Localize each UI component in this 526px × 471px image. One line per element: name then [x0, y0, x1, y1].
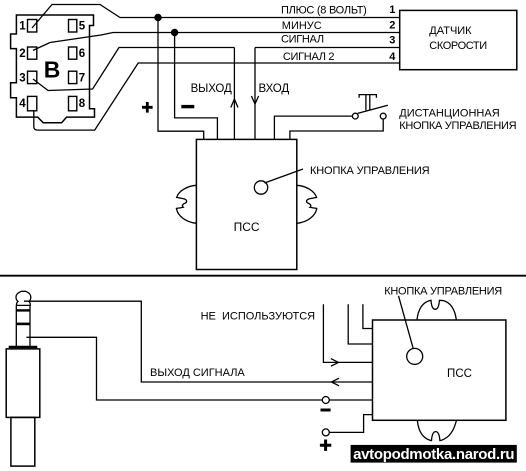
separator line — [0, 275, 526, 277]
plus symbol top — [142, 102, 153, 113]
lower PSS button pointer line — [399, 296, 414, 349]
svg-text:2: 2 — [389, 19, 395, 31]
pin 4 — [28, 96, 37, 110]
svg-text:5: 5 — [79, 21, 86, 33]
jack band 2 — [16, 323, 30, 326]
unused wire 1 with right arrow — [323, 304, 372, 362]
jack band 1 — [16, 309, 30, 311]
svg-text:ВЫХОД СИГНАЛА: ВЫХОД СИГНАЛА — [150, 367, 245, 379]
svg-text:ВХОД: ВХОД — [259, 83, 290, 95]
svg-text:СКОРОСТИ: СКОРОСТИ — [429, 40, 486, 52]
wire PSS to switch left — [274, 116, 352, 139]
svg-text:6: 6 — [79, 48, 85, 60]
svg-text:avtopodmotka.narod.ru: avtopodmotka.narod.ru — [353, 446, 514, 463]
wire PSS to switch right — [290, 119, 383, 139]
arrow down on VHOD — [251, 96, 258, 104]
svg-text:КНОПКА УПРАВЛЕНИЯ: КНОПКА УПРАВЛЕНИЯ — [399, 120, 516, 132]
svg-text:СИГНАЛ: СИГНАЛ — [281, 34, 324, 46]
wire VYHOD vertical — [233, 48, 235, 140]
arrow right on unused wire 1 — [331, 359, 339, 367]
wire SIGNAL continuation to sensor pin3 — [255, 47, 400, 49]
wire plus branch down to PSS — [158, 18, 204, 140]
svg-text:МИНУС: МИНУС — [282, 20, 322, 32]
lower PSS bottom ear — [417, 421, 456, 441]
wire from jack tip (signal output) — [24, 301, 373, 382]
svg-text:7: 7 — [79, 73, 85, 85]
unused wire 3 — [363, 304, 373, 328]
jack sleeve — [11, 417, 35, 466]
sensor box — [400, 10, 517, 69]
pin 1 — [28, 20, 37, 33]
svg-text:ВЫХОД: ВЫХОД — [191, 83, 232, 95]
switch plunger — [359, 95, 376, 111]
plus symbol bottom — [320, 440, 331, 451]
pin 6 — [69, 47, 77, 59]
svg-text:1: 1 — [19, 21, 26, 33]
svg-text:1: 1 — [389, 4, 395, 16]
jack shaft — [16, 305, 30, 347]
junction dot on PLUS wire — [155, 14, 161, 20]
pin 8 — [69, 96, 77, 110]
watermark banner — [351, 445, 517, 463]
svg-text:4: 4 — [19, 98, 26, 110]
arrow up on VYHOD — [231, 99, 238, 108]
lower PSS top ear — [417, 300, 456, 319]
svg-text:3: 3 — [389, 34, 395, 46]
svg-text:СИГНАЛ 2: СИГНАЛ 2 — [283, 51, 335, 63]
pin 2 — [28, 47, 37, 59]
wire SIGNAL (pin3 down-then-up to PSS output branch) — [33, 48, 234, 91]
upper PSS box — [196, 139, 296, 269]
wire PLUS (pin1 to sensor pin1) — [32, 5, 400, 29]
upper PSS button pointer line — [265, 169, 304, 183]
switch lever — [358, 105, 388, 113]
lower PSS box — [373, 320, 506, 420]
pin 5 — [69, 20, 77, 33]
unused wire 2 — [348, 304, 372, 344]
wire minus branch down to PSS — [175, 33, 218, 140]
svg-text:В: В — [44, 56, 61, 82]
minus symbol top — [181, 105, 194, 108]
pin 3 — [28, 71, 37, 83]
wire SIGNAL2 (pin4 to sensor pin4) — [34, 63, 400, 130]
minus terminal circle — [322, 397, 329, 404]
minus symbol bottom — [321, 409, 331, 412]
svg-text:ДАТЧИК: ДАТЧИК — [429, 25, 472, 37]
connector B outline — [11, 15, 95, 123]
svg-text:НЕ ИСПОЛЬЗУЮТСЯ: НЕ ИСПОЛЬЗУЮТСЯ — [201, 310, 316, 322]
svg-text:КНОПКА УПРАВЛЕНИЯ: КНОПКА УПРАВЛЕНИЯ — [384, 285, 502, 297]
wire VHOD vertical — [254, 48, 256, 140]
svg-text:ПСС: ПСС — [234, 220, 260, 234]
svg-text:2: 2 — [19, 48, 25, 60]
arrow left on signal wire — [332, 378, 340, 386]
upper PSS right ear — [297, 185, 317, 223]
svg-text:ДИСТАНЦИОННАЯ: ДИСТАНЦИОННАЯ — [399, 108, 499, 120]
svg-text:КНОПКА УПРАВЛЕНИЯ: КНОПКА УПРАВЛЕНИЯ — [310, 165, 430, 177]
switch terminal left — [352, 113, 358, 119]
plus terminal circle — [322, 429, 329, 436]
jack barrel — [6, 349, 40, 418]
svg-text:4: 4 — [389, 51, 396, 63]
switch terminal right — [380, 113, 386, 119]
wire from jack ring to minus terminal — [26, 337, 322, 400]
upper PSS left ear — [176, 185, 196, 223]
wire minus terminal to box — [329, 399, 372, 401]
svg-text:ПСС: ПСС — [447, 368, 472, 380]
jack barrel cap — [9, 346, 38, 348]
wire plus terminal to box — [329, 415, 372, 433]
junction dot on MINUS wire — [172, 29, 178, 35]
svg-text:8: 8 — [79, 98, 86, 110]
lower PSS button circle — [407, 348, 423, 364]
upper PSS button circle — [254, 181, 267, 194]
jack tip — [16, 291, 31, 305]
wire MINUS (pin2 to sensor pin2) — [33, 33, 400, 51]
svg-text:ПЛЮС (8 ВОЛЬТ): ПЛЮС (8 ВОЛЬТ) — [281, 4, 367, 16]
pin 7 — [69, 71, 77, 83]
svg-text:3: 3 — [19, 73, 25, 85]
